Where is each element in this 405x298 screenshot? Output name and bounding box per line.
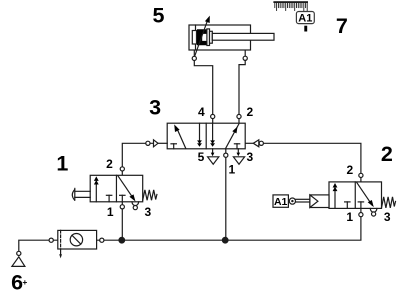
svg-text:2: 2	[106, 157, 113, 171]
svg-text:1: 1	[56, 151, 68, 175]
distance ruler A1 (7)	[273, 1, 314, 31]
svg-text:6: 6	[11, 270, 23, 294]
wire cylinder right port to valve3 port2	[239, 50, 245, 123]
svg-text:1: 1	[229, 163, 236, 177]
port 2 node	[237, 114, 241, 118]
svg-text:3: 3	[145, 205, 152, 219]
wire air source to service unit	[19, 240, 58, 251]
port 2 node	[359, 173, 363, 177]
svg-text:7: 7	[336, 14, 348, 38]
svg-text:5: 5	[153, 3, 165, 27]
svg-text:+: +	[22, 277, 27, 287]
wire riser valve3 port1	[225, 149, 227, 240]
pushbutton actuator	[72, 190, 74, 200]
junction dot left	[119, 237, 125, 243]
right pilot triangle	[253, 140, 258, 147]
svg-text:2: 2	[246, 105, 253, 119]
port 4 node	[211, 114, 215, 118]
right box: blocked port 3	[234, 143, 239, 145]
A1 pilot actuator	[273, 195, 288, 207]
svg-text:5: 5	[198, 150, 205, 164]
service unit (filter/regulator)	[49, 230, 104, 258]
exhaust port 3 bell	[370, 209, 377, 213]
right box: blocked port 1	[358, 201, 363, 203]
left box: blocked	[106, 194, 111, 196]
svg-text:4: 4	[198, 105, 205, 119]
right box: blocked port 1	[120, 194, 125, 196]
left box: flow 1-2 up	[95, 183, 97, 201]
svg-text:3: 3	[384, 210, 391, 224]
port 1 node	[224, 153, 228, 157]
svg-text:A1: A1	[274, 196, 288, 208]
valve 1 (3/2 way, pushbutton, spring return)	[72, 167, 157, 210]
wire cylinder left port to valve3 port4	[194, 50, 212, 123]
left box: blocked port	[171, 143, 176, 145]
svg-text:1: 1	[346, 210, 353, 224]
port 1 node	[359, 213, 363, 217]
left box: flow 2-3 down	[199, 123, 201, 141]
left pilot triangle	[154, 140, 159, 147]
port 2 node	[120, 167, 124, 171]
right box: flow 2-3 diagonal	[357, 182, 372, 205]
junction dot middle	[222, 237, 228, 243]
return spring	[143, 190, 157, 200]
svg-text:2: 2	[347, 163, 354, 177]
cylinder 5	[189, 16, 274, 61]
wire riser valve1 port1	[121, 202, 123, 240]
right box: arrow 1-2	[225, 124, 239, 149]
port 5 exhaust	[212, 149, 214, 153]
wire valve1 port2 to valve3 left pilot	[122, 143, 153, 175]
svg-text:1: 1	[107, 205, 114, 219]
svg-text:2: 2	[381, 142, 393, 166]
port 1 node	[120, 205, 124, 209]
valve 2 (3/2 way, pilot A1, spring return)	[273, 173, 396, 216]
left box: flow 1-2 up	[334, 190, 336, 208]
right box: flow 2-3 diagonal	[118, 176, 134, 199]
port 3 exhaust	[237, 149, 239, 153]
wire supply bus	[97, 208, 361, 240]
exhaust port 3 bell	[132, 202, 139, 206]
left box: blocked	[345, 201, 350, 203]
svg-text:3: 3	[247, 150, 254, 164]
wire valve3 right pilot to valve2 port2	[245, 142, 253, 144]
svg-text:3: 3	[149, 96, 161, 120]
valve 3 (5/2 way, double pilot)	[146, 114, 264, 164]
right box: flow 4-5 down	[212, 123, 214, 141]
air source 6	[12, 251, 25, 266]
left box: arrow 1-4	[177, 128, 186, 149]
svg-text:A1: A1	[298, 12, 312, 24]
return spring	[382, 197, 396, 208]
